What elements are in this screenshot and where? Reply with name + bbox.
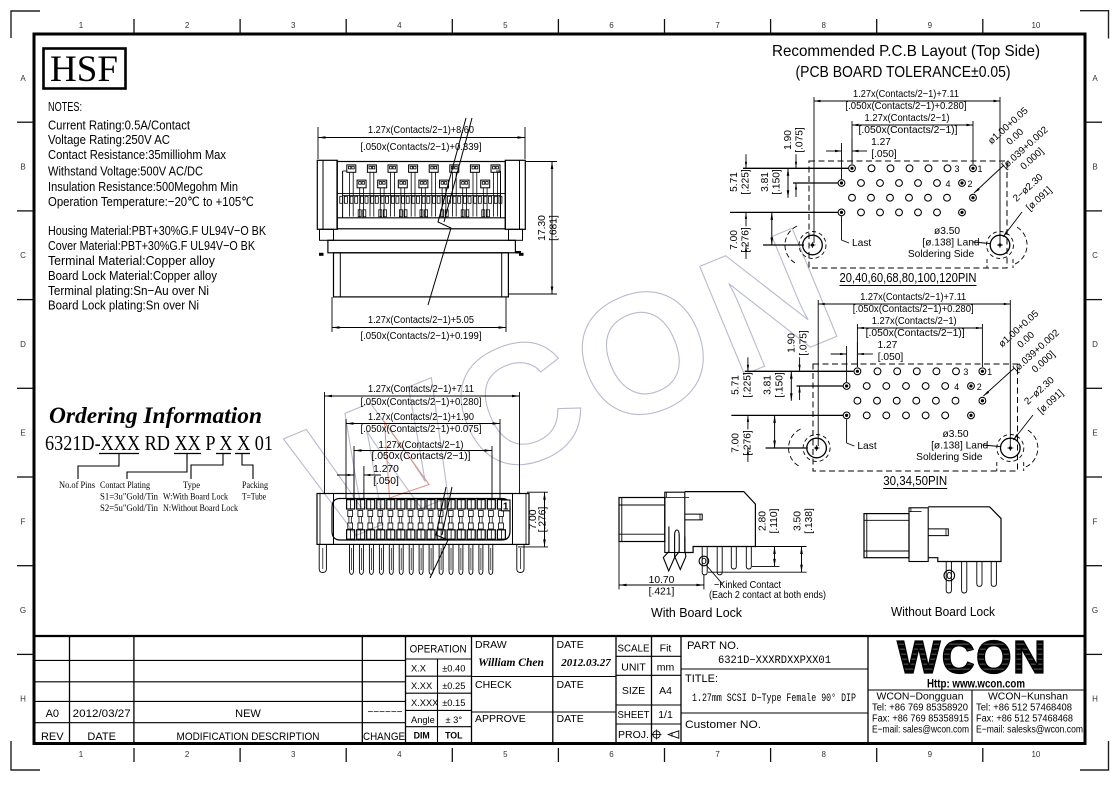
svg-text:1: 1 [987, 367, 992, 377]
svg-text:Fax: +86 512 57468468: Fax: +86 512 57468468 [976, 714, 1073, 725]
svg-text:Cover Material:PBT+30%G.F UL: Cover Material:PBT+30%G.F UL94V−O BK [48, 238, 255, 253]
svg-text:[.050x(Contacts/2−1)+0.199]: [.050x(Contacts/2−1)+0.199] [361, 331, 482, 342]
svg-text:NEW: NEW [235, 708, 261, 720]
svg-text:DATE: DATE [557, 639, 584, 651]
svg-text:(Each 2 contact at both e: (Each 2 contact at both ends) [709, 590, 826, 601]
svg-text:F: F [21, 517, 26, 526]
svg-text:Contact Resistance:35milliohm: Contact Resistance:35milliohm Max [48, 147, 226, 162]
svg-text:4: 4 [397, 21, 402, 30]
svg-text:mm: mm [657, 662, 675, 674]
svg-text:[.276]: [.276] [538, 506, 549, 532]
svg-text:[.050x(Contacts/2−1)+0.280]: [.050x(Contacts/2−1)+0.280] [853, 304, 974, 315]
svg-text:DATE: DATE [557, 713, 584, 725]
svg-text:S1=3u"Gold/Tin: S1=3u"Gold/Tin [100, 492, 158, 503]
svg-text:X.XXX: X.XXX [411, 698, 438, 708]
svg-text:2: 2 [185, 750, 190, 759]
svg-text:1.27mm SCSI D−Type Female 90°: 1.27mm SCSI D−Type Female 90° DIP [692, 693, 856, 705]
svg-text:[.050x(Contacts/2−1)+0.075]: [.050x(Contacts/2−1)+0.075] [361, 424, 482, 435]
svg-text:1.27: 1.27 [877, 340, 897, 351]
svg-text:9: 9 [928, 750, 933, 759]
svg-text:MODIFICATION DESCRIPTION: MODIFICATION DESCRIPTION [177, 731, 320, 743]
svg-text:Terminal plating:Sn−Au over: Terminal plating:Sn−Au over Ni [48, 283, 209, 298]
svg-text:1.270: 1.270 [373, 464, 399, 475]
svg-text:Terminal Material:Copper all: Terminal Material:Copper alloy [48, 253, 215, 268]
svg-text:Type: Type [183, 480, 201, 491]
svg-text:2.80: 2.80 [758, 511, 769, 531]
svg-text:Customer NO.: Customer NO. [685, 719, 761, 731]
svg-text:1: 1 [977, 164, 982, 174]
svg-text:W:With Board Lock: W:With Board Lock [163, 492, 228, 503]
svg-text:4: 4 [945, 179, 950, 189]
svg-text:2: 2 [967, 179, 972, 189]
svg-text:[ø.138] Land: [ø.138] Land [922, 238, 980, 249]
svg-text:NOTES:: NOTES: [48, 99, 82, 114]
svg-text:X.XX: X.XX [411, 681, 432, 691]
svg-text:6: 6 [609, 21, 614, 30]
svg-text:ø3.50: ø3.50 [942, 429, 968, 440]
svg-text:[.075]: [.075] [795, 127, 806, 153]
svg-text:Ordering Information: Ordering Information [49, 403, 262, 429]
svg-text:[.050]: [.050] [878, 352, 904, 363]
svg-text:H: H [1092, 695, 1098, 704]
svg-text:OPERATION: OPERATION [410, 644, 467, 656]
svg-text:Without Board Lock: Without Board Lock [891, 604, 995, 619]
svg-text:±0.40: ±0.40 [442, 664, 465, 674]
svg-text:[.150]: [.150] [775, 372, 786, 398]
svg-text:−−−−−−: −−−−−− [367, 707, 402, 718]
svg-text:Angle: Angle [411, 715, 435, 725]
svg-text:1.27x(Contacts/2−1)+1.90: 1.27x(Contacts/2−1)+1.90 [368, 412, 474, 423]
svg-text:30,34,50PIN: 30,34,50PIN [883, 474, 947, 488]
svg-text:±0.25: ±0.25 [442, 681, 465, 691]
svg-text:1.27x(Contacts/2−1)+5.05: 1.27x(Contacts/2−1)+5.05 [368, 315, 474, 326]
svg-text:D: D [1092, 340, 1098, 349]
svg-text:2012.03.27: 2012.03.27 [560, 657, 611, 669]
svg-text:E: E [1092, 429, 1097, 438]
svg-text:[.050x(Contacts/2−1)]: [.050x(Contacts/2−1)] [866, 328, 965, 339]
svg-text:T=Tube: T=Tube [242, 492, 266, 503]
svg-text:[.110]: [.110] [769, 508, 780, 533]
svg-text:1/1: 1/1 [658, 709, 673, 721]
svg-text:With Board Lock: With Board Lock [651, 605, 742, 620]
svg-text:1.90: 1.90 [786, 333, 797, 353]
svg-text:DATE: DATE [87, 731, 116, 743]
svg-text:2: 2 [185, 21, 190, 30]
svg-text:7.00: 7.00 [731, 433, 742, 453]
svg-text:HSF: HSF [50, 49, 118, 90]
svg-text:4: 4 [954, 382, 959, 392]
svg-text:3.50: 3.50 [793, 511, 804, 531]
svg-text:Current Rating:0.5A/Contact: Current Rating:0.5A/Contact [48, 118, 190, 133]
svg-text:B: B [1092, 163, 1097, 172]
svg-text:1.27x(Contacts/2−1)+7.11: 1.27x(Contacts/2−1)+7.11 [368, 384, 474, 395]
svg-text:8: 8 [821, 750, 826, 759]
svg-text:TOL: TOL [445, 731, 463, 741]
svg-text:D: D [20, 340, 26, 349]
svg-text:A: A [1092, 74, 1098, 83]
svg-text:[.050x(Contacts/2−1)]: [.050x(Contacts/2−1)] [859, 125, 958, 136]
svg-text:APPROVE: APPROVE [475, 713, 526, 725]
svg-text:3: 3 [291, 750, 296, 759]
svg-text:Soldering Side: Soldering Side [916, 452, 983, 463]
svg-text:C: C [1092, 251, 1098, 260]
svg-text:[.225]: [.225] [743, 372, 754, 398]
svg-text:WCON: WCON [897, 631, 1047, 683]
svg-text:3: 3 [291, 21, 296, 30]
svg-text:C: C [20, 251, 26, 260]
svg-text:[.050x(Contacts/2−1)+0.280]: [.050x(Contacts/2−1)+0.280] [361, 397, 482, 408]
svg-text:8: 8 [821, 21, 826, 30]
svg-text:No.of Pins: No.of Pins [59, 480, 95, 491]
svg-text:WCON−Kunshan: WCON−Kunshan [988, 692, 1068, 703]
svg-text:1: 1 [79, 750, 84, 759]
svg-text:10: 10 [1031, 21, 1040, 30]
svg-text:20,40,60,68,80,100,120PIN: 20,40,60,68,80,100,120PIN [840, 271, 977, 285]
svg-text:10: 10 [1031, 750, 1040, 759]
svg-text:E−mail: salesks@wcon.com: E−mail: salesks@wcon.com [976, 725, 1083, 736]
svg-text:1.27x(Contacts/2−1)+7.11: 1.27x(Contacts/2−1)+7.11 [860, 292, 966, 303]
svg-text:G: G [1092, 606, 1098, 615]
svg-text:5.71: 5.71 [729, 172, 740, 192]
svg-text:[.075]: [.075] [798, 330, 809, 356]
svg-text:E: E [20, 429, 25, 438]
svg-text:1: 1 [503, 501, 509, 512]
svg-text:6321D-XXX RD XX P X X 01: 6321D-XXX RD XX P X X 01 [45, 431, 273, 455]
svg-text:± 3°: ± 3° [446, 715, 463, 725]
svg-text:Board Lock plating:Sn over: Board Lock plating:Sn over Ni [48, 298, 199, 313]
svg-text:1.27x(Contacts/2−1): 1.27x(Contacts/2−1) [379, 440, 464, 451]
svg-text:X.X: X.X [411, 664, 426, 674]
svg-text:7.00: 7.00 [729, 230, 740, 250]
svg-text:DRAW: DRAW [475, 639, 507, 651]
svg-text:1.27x(Contacts/2−1): 1.27x(Contacts/2−1) [865, 113, 950, 124]
svg-text:[.050x(Contacts/2−1)]: [.050x(Contacts/2−1)] [372, 451, 471, 462]
svg-text:DIM: DIM [414, 731, 430, 741]
svg-text:A4: A4 [659, 685, 672, 697]
svg-text:6: 6 [609, 750, 614, 759]
svg-text:[.050]: [.050] [373, 476, 399, 487]
svg-text:[.225]: [.225] [741, 169, 752, 195]
svg-text:SCALE: SCALE [618, 643, 650, 655]
svg-text:UNIT: UNIT [621, 662, 646, 674]
svg-text:G: G [20, 606, 26, 615]
svg-text:Housing Material:PBT+30%G.F: Housing Material:PBT+30%G.F UL94V−O BK [48, 223, 266, 238]
svg-text:PROJ.: PROJ. [618, 729, 649, 741]
svg-text:ø3.50: ø3.50 [934, 226, 960, 237]
svg-text:5: 5 [503, 21, 508, 30]
svg-text:1.27x(Contacts/2−1): 1.27x(Contacts/2−1) [872, 316, 957, 327]
svg-text:[.050x(Contacts/2−1)+0.280]: [.050x(Contacts/2−1)+0.280] [846, 101, 967, 112]
svg-text:3.81: 3.81 [763, 375, 774, 395]
svg-text:PART NO.: PART NO. [687, 640, 739, 652]
svg-text:F: F [1093, 517, 1098, 526]
svg-text:[.050]: [.050] [871, 149, 897, 160]
svg-text:Board Lock Material:Copper: Board Lock Material:Copper alloy [48, 268, 217, 283]
svg-text:Insulation Resistance:500Mego: Insulation Resistance:500Megohm Min [48, 179, 238, 194]
svg-text:3.81: 3.81 [760, 172, 771, 192]
svg-text:REV: REV [41, 731, 64, 743]
svg-text:Operation Temperature:−20℃ t: Operation Temperature:−20℃ to +105℃ [48, 194, 254, 209]
svg-text:E−mail: sales@wcon.com: E−mail: sales@wcon.com [872, 725, 969, 736]
svg-text:Fit: Fit [660, 643, 672, 655]
svg-text:(PCB BOARD TOLERANCE±0.05): (PCB BOARD TOLERANCE±0.05) [796, 64, 1011, 81]
svg-text:[.681]: [.681] [549, 215, 560, 241]
svg-text:B: B [20, 163, 25, 172]
svg-text:7: 7 [715, 750, 720, 759]
svg-text:3: 3 [954, 164, 959, 174]
svg-text:N:Without Board Lock: N:Without Board Lock [163, 503, 238, 514]
svg-text:9: 9 [928, 21, 933, 30]
svg-text:6321D−XXXRDXXPXX01: 6321D−XXXRDXXPXX01 [718, 655, 831, 667]
svg-text:[.421]: [.421] [649, 587, 675, 598]
svg-text:WCON−Dongguan: WCON−Dongguan [877, 692, 964, 703]
svg-text:A0: A0 [46, 708, 59, 720]
svg-text:10.70: 10.70 [649, 575, 675, 586]
svg-text:Http: www.wcon.com: Http: www.wcon.com [927, 677, 1025, 691]
svg-text:5: 5 [503, 750, 508, 759]
svg-text:2: 2 [977, 382, 982, 392]
svg-text:7: 7 [715, 21, 720, 30]
svg-text:Tel: +86 769 85358920: Tel: +86 769 85358920 [872, 703, 968, 714]
svg-text:SIZE: SIZE [622, 685, 645, 697]
svg-text:1.27x(Contacts/2−1)+8.60: 1.27x(Contacts/2−1)+8.60 [368, 125, 474, 136]
svg-text:Last: Last [857, 441, 876, 452]
svg-text:A: A [20, 74, 26, 83]
svg-text:William Chen: William Chen [478, 657, 544, 669]
svg-text:TITLE:: TITLE: [685, 673, 718, 685]
svg-text:Tel: +86 512 57468408: Tel: +86 512 57468408 [976, 703, 1072, 714]
svg-text:Recommended P.C.B Layout (T: Recommended P.C.B Layout (Top Side) [772, 43, 1040, 60]
svg-text:Fax: +86 769 85358915: Fax: +86 769 85358915 [872, 714, 969, 725]
svg-text:Voltage Rating:250V AC: Voltage Rating:250V AC [48, 132, 170, 147]
svg-text:Contact Plating: Contact Plating [100, 480, 150, 491]
svg-text:Last: Last [852, 238, 871, 249]
svg-text:5.71: 5.71 [731, 375, 742, 395]
svg-text:[.138]: [.138] [804, 508, 815, 534]
svg-text:1.27: 1.27 [871, 137, 891, 148]
svg-text:[.150]: [.150] [772, 169, 783, 195]
svg-text:2012/03/27: 2012/03/27 [73, 708, 131, 720]
svg-text:CHANGE: CHANGE [363, 731, 405, 743]
svg-text:3: 3 [963, 367, 968, 377]
svg-text:Packing: Packing [242, 480, 268, 491]
svg-text:1.27x(Contacts/2−1)+7.11: 1.27x(Contacts/2−1)+7.11 [853, 89, 959, 100]
svg-text:SHEET: SHEET [618, 709, 651, 721]
svg-text:[ø.138] Land: [ø.138] Land [931, 441, 989, 452]
svg-text:±0.15: ±0.15 [442, 698, 465, 708]
svg-text:Withstand Voltage:500V AC/DC: Withstand Voltage:500V AC/DC [48, 164, 203, 179]
svg-text:DATE: DATE [557, 679, 584, 691]
svg-text:Soldering Side: Soldering Side [908, 249, 975, 260]
svg-text:CHECK: CHECK [475, 679, 512, 691]
svg-text:S2=5u"Gold/Tin: S2=5u"Gold/Tin [100, 503, 158, 514]
svg-text:1: 1 [79, 21, 84, 30]
svg-text:4: 4 [397, 750, 402, 759]
svg-text:H: H [20, 695, 26, 704]
svg-text:17.30: 17.30 [537, 215, 548, 241]
svg-text:1.90: 1.90 [783, 130, 794, 150]
